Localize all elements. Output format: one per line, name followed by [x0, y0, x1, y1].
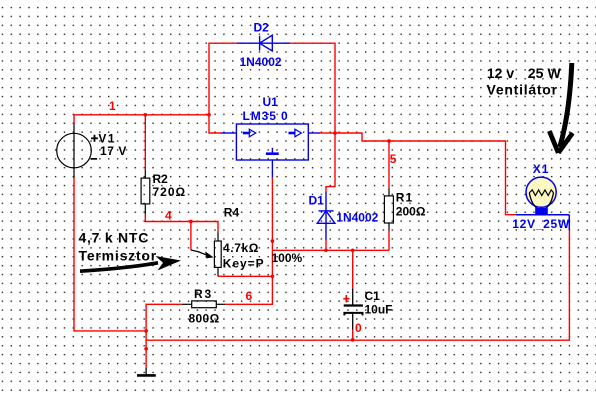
junction node 4 / wiper	[189, 220, 193, 224]
wire node 4 R2 bottom to pot top	[145, 215, 218, 233]
wire from vertical down to U1 left pin	[209, 115, 221, 133]
lamp X1 bulb	[516, 177, 569, 230]
wire R1 top branch	[388, 141, 390, 188]
svg-text:D2: D2	[254, 20, 270, 34]
svg-text:200Ω: 200Ω	[396, 205, 426, 219]
svg-text:Key=P: Key=P	[223, 257, 265, 271]
annotation fan text	[487, 65, 562, 98]
junction node 1 / R2	[143, 113, 147, 117]
junction D1 / node line	[324, 248, 328, 252]
op-amp U1 LM35 body	[221, 124, 320, 178]
svg-text:10uF: 10uF	[365, 303, 393, 317]
wire D1 top branch	[326, 133, 335, 192]
wire U1 bottom vertical down	[225, 178, 272, 305]
source V1	[57, 124, 92, 179]
wire D2 right to right vertical	[290, 43, 335, 133]
svg-text:800Ω: 800Ω	[189, 312, 220, 326]
annotation NTC arrow	[80, 256, 181, 271]
junction V1 rail / ground vertical	[144, 329, 148, 333]
svg-text:R3: R3	[194, 287, 213, 301]
wire D2 branch vertical left	[209, 43, 237, 115]
ground	[137, 368, 156, 376]
svg-text:12V_25W: 12V_25W	[512, 217, 570, 231]
svg-text:U1: U1	[263, 95, 279, 109]
op-amp U1 internal pin symbols	[243, 129, 302, 154]
svg-text:6: 6	[246, 289, 253, 303]
svg-text:C1: C1	[365, 289, 381, 303]
svg-text:R1: R1	[396, 191, 413, 205]
wire node 5 horizontal with step to lamp	[335, 133, 516, 215]
svg-text:4,7 k NTC: 4,7 k NTC	[79, 230, 150, 246]
capacitor C1 labels	[343, 295, 349, 302]
svg-text:5: 5	[390, 152, 397, 166]
annotation NTC thermistor text	[79, 230, 158, 264]
potentiometer R4	[214, 232, 221, 276]
svg-text:LM35 0: LM35 0	[243, 109, 289, 123]
svg-text:R2: R2	[153, 172, 169, 186]
resistor R3	[182, 301, 225, 308]
junction node 5 / R1	[387, 139, 391, 143]
svg-text:4: 4	[165, 209, 172, 223]
junction U1 right / D2	[333, 131, 337, 135]
wire node line y250	[272, 249, 389, 251]
diode D2	[237, 35, 290, 51]
junction pot bottom / node 6	[271, 274, 275, 278]
svg-text:4.7kΩ: 4.7kΩ	[223, 241, 259, 255]
svg-text:17 V: 17 V	[100, 144, 127, 158]
wire pot bottom to node 6 vertical	[218, 275, 272, 277]
svg-text:1N4002: 1N4002	[240, 55, 282, 69]
diode D1	[317, 192, 335, 240]
wire node 1 top rail V1 to D2 branch	[74, 115, 209, 124]
junction C1 / node line	[351, 248, 355, 252]
wire pot wiper branch	[190, 222, 192, 251]
wire C1 bottom to rail	[352, 330, 354, 340]
wire R3 left to ground vertical	[146, 304, 182, 367]
wire V1 bottom left rail	[74, 178, 146, 331]
resistor R1	[384, 188, 393, 230]
junction C1 / bottom rail	[351, 338, 355, 342]
wire R2 top branch from node 1	[144, 115, 146, 170]
capacitor C1	[344, 289, 363, 330]
svg-text:12 v: 12 v	[487, 65, 514, 81]
junction on U1 bottom wire upper	[271, 239, 275, 243]
svg-text:720Ω: 720Ω	[153, 185, 187, 199]
wire bottom rail	[146, 230, 569, 341]
svg-text:0: 0	[355, 321, 362, 335]
svg-text:100%: 100%	[272, 251, 303, 265]
svg-text:X1: X1	[533, 162, 550, 176]
svg-text:1: 1	[109, 99, 116, 113]
source V1 labels	[91, 132, 127, 160]
resistor R2	[141, 169, 150, 214]
svg-text:1N4002: 1N4002	[336, 211, 378, 225]
svg-text:25 W: 25 W	[528, 65, 562, 81]
junction node 1 / D2 vertical	[207, 113, 211, 117]
annotation fan arrow	[549, 63, 572, 153]
svg-text:Termisztor: Termisztor	[79, 247, 158, 263]
svg-text:R4: R4	[224, 205, 240, 219]
wire U1 right pin red to node 5	[320, 132, 335, 134]
wire D1 bottom to node line	[325, 240, 327, 250]
svg-text:Ventilátor: Ventilátor	[487, 82, 558, 98]
junction ground vertical lower	[144, 347, 148, 351]
potentiometer R4 wiper arrow	[191, 250, 214, 258]
svg-text:D1: D1	[309, 194, 325, 208]
wire C1 top branch	[352, 250, 354, 288]
wire R1 bottom to node line	[388, 231, 390, 251]
